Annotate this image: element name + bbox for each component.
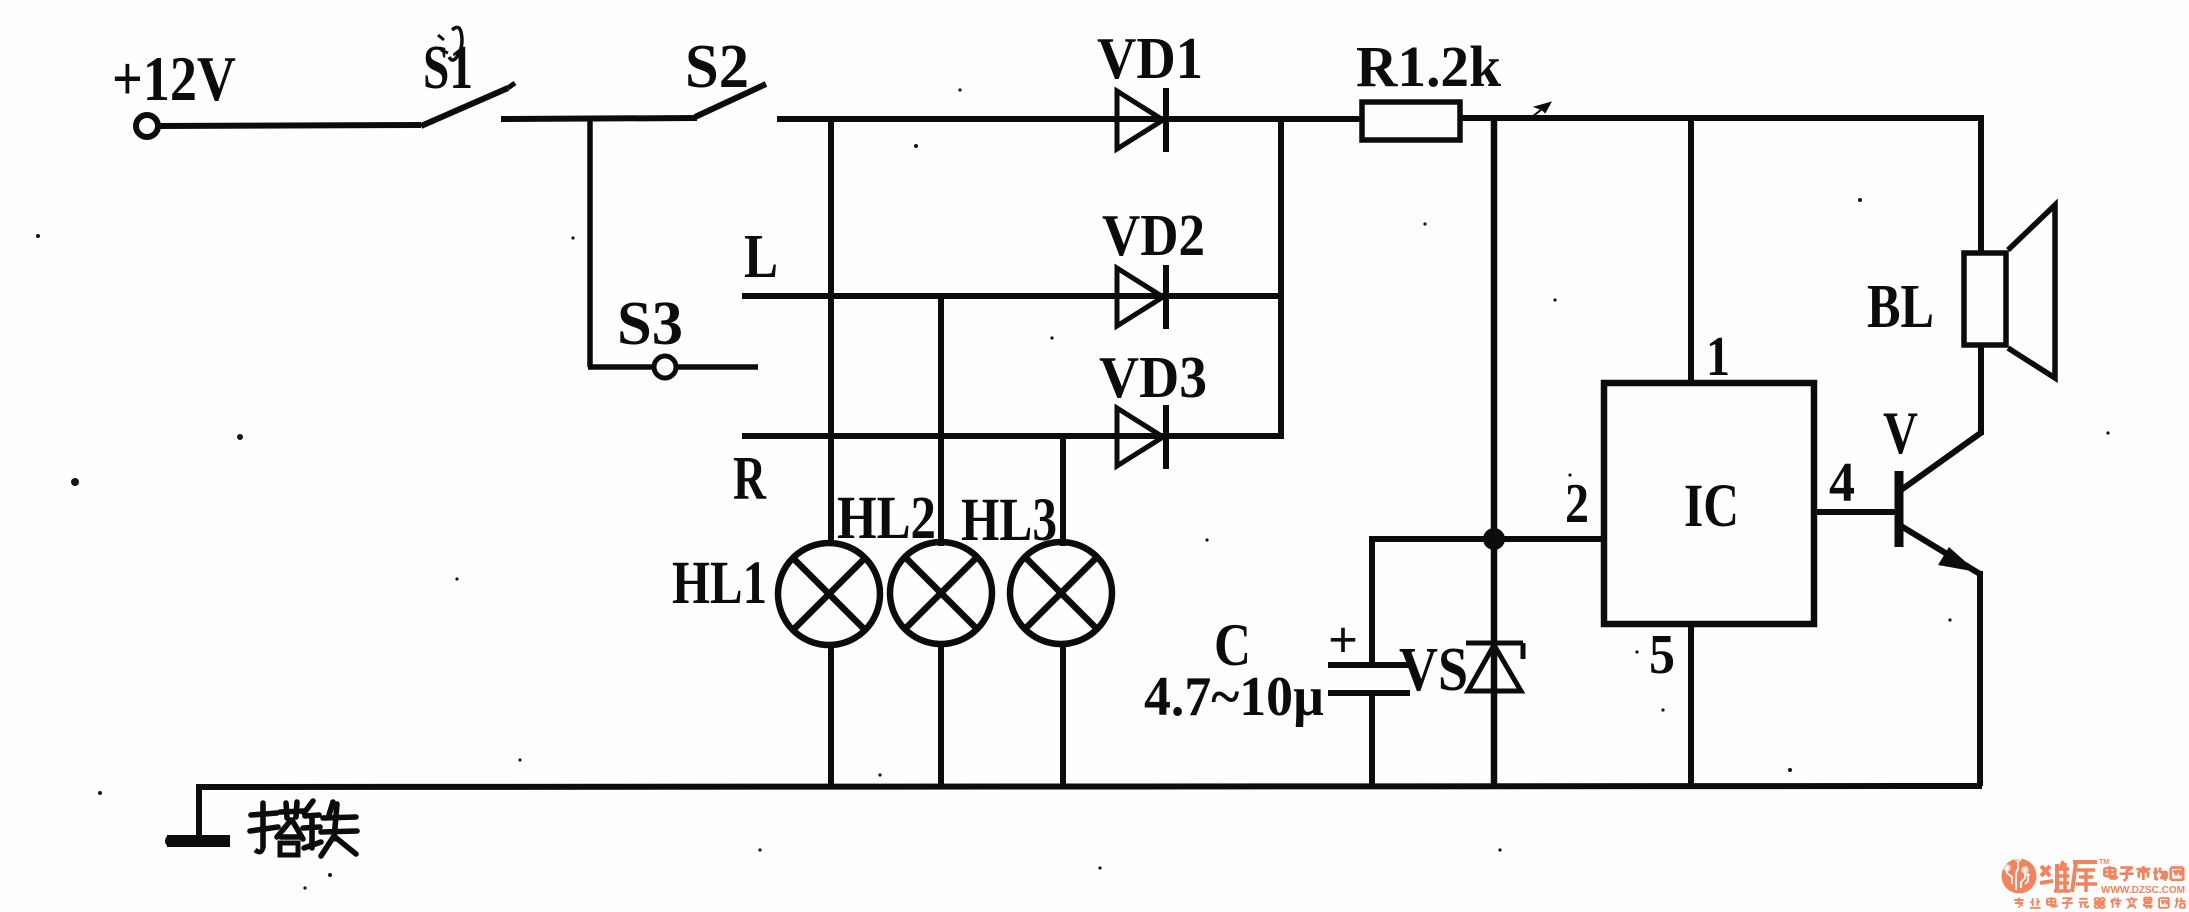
- svg-text:WWW.DZSC.COM: WWW.DZSC.COM: [2101, 884, 2185, 896]
- svg-text:HL1: HL1: [672, 550, 767, 617]
- svg-text:HL3: HL3: [961, 487, 1057, 554]
- svg-text:+12V: +12V: [112, 44, 236, 114]
- svg-text:2: 2: [1565, 473, 1589, 535]
- svg-text:V: V: [1883, 400, 1918, 466]
- svg-text:VS: VS: [1399, 636, 1468, 704]
- svg-text:BL: BL: [1867, 273, 1934, 341]
- svg-text:4: 4: [1829, 452, 1855, 514]
- svg-text:R1.2k: R1.2k: [1356, 34, 1502, 99]
- svg-text:L: L: [744, 223, 778, 291]
- svg-text:VD3: VD3: [1099, 344, 1207, 410]
- svg-text:4.7~10µ: 4.7~10µ: [1144, 666, 1324, 728]
- svg-text:S3: S3: [617, 290, 683, 358]
- svg-text:VD2: VD2: [1102, 202, 1205, 268]
- svg-text:+: +: [1328, 612, 1358, 669]
- svg-text:VD1: VD1: [1097, 25, 1203, 91]
- svg-text:1: 1: [1706, 326, 1730, 388]
- svg-text:5: 5: [1649, 624, 1675, 686]
- svg-text:R: R: [733, 445, 767, 513]
- svg-text:TM: TM: [2099, 859, 2109, 866]
- svg-text:S2: S2: [685, 33, 749, 101]
- svg-text:IC: IC: [1684, 473, 1739, 540]
- svg-text:HL2: HL2: [837, 485, 936, 552]
- svg-text:S1: S1: [423, 34, 473, 102]
